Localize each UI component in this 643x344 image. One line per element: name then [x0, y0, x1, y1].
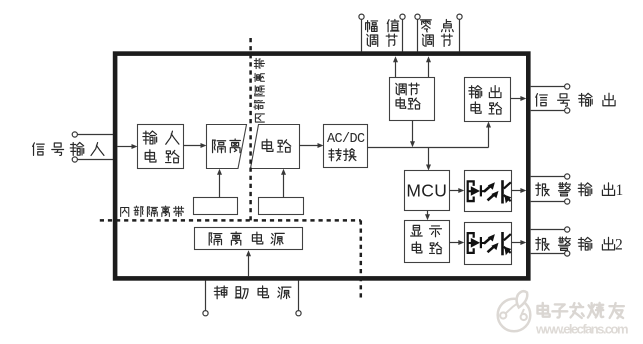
wire stub amplitude adjust right: [402, 19, 404, 51]
optocoupler U1 symbol: [467, 180, 512, 203]
terminal circle zero-adjust left: [415, 14, 420, 19]
block: input circuit: [138, 125, 184, 169]
block: AC/DC converter: [324, 125, 368, 168]
isolation band dashed horizontal: [100, 219, 361, 222]
wire arrow aux power -> isolated power: [248, 255, 250, 276]
terminal circle alarm2 upper: [565, 227, 570, 232]
wire aux power stub right: [298, 280, 300, 310]
block: small box under isolation: [194, 198, 238, 215]
wire alarm2 lower: [531, 253, 565, 255]
wire alarm2 upper: [531, 229, 565, 231]
block: output circuit: [465, 78, 511, 122]
wire alarm1 lower: [531, 201, 565, 203]
node: signal input terminal upper: [77, 134, 113, 136]
svg-text:AC/DC: AC/DC: [327, 132, 365, 147]
wire rail branch down to MCU: [428, 148, 430, 166]
enclosure main box: [115, 54, 528, 279]
terminal circle amp-adjust left: [359, 14, 364, 19]
wire signal output lower: [531, 110, 565, 112]
wire input lower: [77, 159, 113, 161]
label: alarm output 1: [536, 183, 549, 196]
terminal circle alarm1 lower: [565, 199, 570, 204]
wire rail riser to output circuit: [488, 127, 490, 148]
block: adjust circuit: [390, 78, 435, 121]
label: signal input: [33, 143, 44, 156]
terminal circle aux left: [203, 311, 208, 316]
wire alarm1 upper: [531, 176, 565, 178]
terminal circle amp-adjust right: [400, 14, 405, 19]
wire arrow MCU->opto1: [450, 190, 460, 192]
wire arrow MCU->display: [427, 211, 429, 216]
terminal circle aux right: [296, 311, 301, 316]
svg-text:www.elecfans.com: www.elecfans.com: [535, 322, 629, 337]
wire stub zero adjust right: [459, 19, 461, 51]
wire arrow adjust->top border right: [428, 61, 430, 77]
terminal circle input lower: [72, 157, 77, 162]
block: optocoupler 2 box: [465, 223, 512, 265]
label: zero adjust: [420, 20, 431, 32]
svg-text:MCU: MCU: [406, 180, 447, 200]
svg-text:2: 2: [615, 237, 623, 254]
wire arrow into input circuit: [117, 146, 132, 148]
label: alarm output 2: [536, 237, 549, 250]
wire arrow opto2 -> border: [512, 242, 522, 244]
wire arrow adjust->top border left: [395, 61, 397, 77]
wire arrow small box->circuit: [283, 174, 285, 198]
block: small box under circuit: [259, 198, 304, 215]
terminal circle alarm1 upper: [565, 174, 570, 179]
isolation band dashed vertical (lower right): [360, 220, 363, 299]
terminal circle alarm2 lower: [565, 251, 570, 256]
wire arrow output circuit -> border: [511, 98, 522, 100]
wire stub zero adjust left: [417, 19, 419, 51]
wire arrow small box->isolation: [219, 174, 221, 198]
wire aux power stub left: [205, 280, 207, 310]
wire arrow display->opto2: [450, 242, 460, 244]
block: MCU: [405, 171, 450, 211]
terminal circle input upper: [72, 132, 77, 137]
wire stub amplitude adjust left: [361, 19, 363, 51]
watermark logo circle: [498, 291, 531, 331]
watermark brand text: [538, 303, 550, 317]
wire arrow circuit->AC/DC: [300, 145, 319, 147]
block: display circuit: [405, 221, 450, 263]
wire arrow input->isolate: [184, 145, 202, 147]
block: isolated power supply: [195, 228, 303, 250]
terminal circle signal out lower: [565, 108, 570, 113]
block: isolation (left half, slanted): [207, 125, 247, 169]
svg-text:1: 1: [616, 182, 624, 199]
label: auxiliary power: [214, 286, 227, 299]
block: circuit (right half, slanted): [251, 125, 300, 169]
label: internal isolation band (horizontal): [121, 208, 129, 217]
wire arrow opto1 -> border: [512, 190, 522, 192]
optocoupler U2 symbol: [467, 232, 512, 255]
terminal circle signal out upper: [565, 84, 570, 89]
block: optocoupler 1 box: [465, 171, 512, 212]
label: signal output: [536, 94, 547, 107]
label: amplitude adjust: [366, 21, 378, 32]
wire rail from AC/DC: [368, 147, 489, 149]
wire adjust circuit down to rail: [412, 121, 414, 143]
terminal circle zero-adjust right: [457, 14, 462, 19]
wire signal output upper: [531, 86, 565, 88]
label: internal isolation band (vertical): [255, 114, 264, 122]
isolation band dashed vertical (upper): [249, 38, 252, 220]
